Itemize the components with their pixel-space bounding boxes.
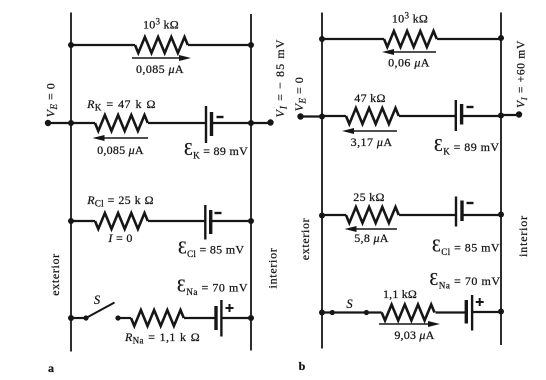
battery ENa = 70 mV (circuit a): short plate bbox=[214, 306, 217, 330]
figure label a bbox=[48, 361, 54, 375]
node junction a4 right bbox=[248, 315, 254, 321]
figure label b bbox=[299, 359, 306, 373]
current label 0,085 uA (circuit a branch 2) bbox=[97, 143, 144, 157]
membrane line exterior (circuit b, left vertical wire) bbox=[321, 13, 323, 349]
svg-text:S: S bbox=[346, 297, 353, 311]
wire battery EK to interior (circuit b) bbox=[462, 115, 501, 117]
value label 10^3 kOhm (circuit a) bbox=[143, 17, 179, 32]
node junction a3 right bbox=[248, 218, 254, 224]
current label 3,17 uA (circuit b branch 2) bbox=[351, 135, 393, 149]
svg-text:ƐNa = 70 mV: ƐNa = 70 mV bbox=[177, 276, 248, 298]
resistor 10^3 kOhm (circuit b leak branch) bbox=[384, 31, 437, 47]
membrane line interior (circuit a, right vertical wire) bbox=[250, 14, 252, 351]
switch S label (circuit a) bbox=[94, 293, 101, 307]
svg-text:exterior: exterior bbox=[298, 218, 312, 261]
current label 0,085 uA (circuit a branch 1) bbox=[136, 62, 184, 76]
membrane line exterior (circuit a, left vertical wire) bbox=[70, 13, 72, 352]
wire resistor RNa to battery (circuit a) bbox=[184, 317, 216, 319]
label interior (circuit a) bbox=[266, 248, 280, 289]
battery EK = 89 mV (circuit a): long plate bbox=[205, 106, 207, 143]
wire battery ENa to interior (circuit b) bbox=[472, 311, 501, 313]
svg-text:5,8 μA: 5,8 μA bbox=[354, 231, 389, 245]
switch S contact dot 2 (circuit b, closed) bbox=[364, 310, 369, 315]
svg-text:47 kΩ: 47 kΩ bbox=[354, 91, 385, 105]
wire branch 3 left (circuit a) bbox=[71, 220, 95, 222]
membrane line interior (circuit b, right vertical wire) bbox=[500, 13, 502, 346]
svg-text:ƐCl = 85 mV: ƐCl = 85 mV bbox=[432, 236, 500, 258]
battery EK polarity minus sign bbox=[217, 116, 224, 118]
svg-text:RCl = 25 k Ω: RCl = 25 k Ω bbox=[86, 193, 154, 209]
battery EK (circuit a): short plate bbox=[210, 112, 213, 136]
wire battery ECl to interior (circuit a) bbox=[211, 220, 251, 222]
svg-text:ƐK = 89 mV: ƐK = 89 mV bbox=[434, 135, 500, 157]
svg-text:0,085 μA: 0,085 μA bbox=[136, 62, 184, 76]
current arrow 0,06 uA leftward (circuit b branch 1) bbox=[382, 49, 436, 55]
wire branch 1 left (circuit b) bbox=[322, 38, 384, 40]
emf label EK = 89 mV bbox=[184, 139, 248, 161]
svg-text:I = 0: I = 0 bbox=[107, 231, 132, 245]
label VI = -85 mV (circuit a) bbox=[273, 38, 289, 117]
svg-text:exterior: exterior bbox=[48, 253, 62, 296]
label 47 kOhm (circuit b) bbox=[354, 91, 385, 105]
battery EK polarity minus sign (circuit b) bbox=[467, 106, 474, 108]
svg-text:a: a bbox=[48, 361, 54, 375]
node junction a1 right bbox=[248, 42, 254, 48]
battery ECl = 85 mV (circuit b): long plate bbox=[455, 197, 457, 227]
node junction a4 left bbox=[68, 315, 74, 321]
current label I = 0 (circuit a branch 3) bbox=[107, 231, 132, 245]
battery ENa polarity plus sign bbox=[226, 304, 234, 312]
wire membrane to switch pivot (circuit a) bbox=[71, 317, 86, 319]
label VE = 0 (circuit a) bbox=[44, 83, 60, 118]
label exterior (circuit b) bbox=[298, 218, 312, 261]
battery ECl (circuit a): short plate bbox=[209, 210, 212, 234]
wire resistor RCl to battery (circuit a) bbox=[148, 220, 205, 222]
svg-text:ƐK = 89 mV: ƐK = 89 mV bbox=[184, 139, 248, 161]
current arrow 5,8 uA leftward (circuit b branch 3) bbox=[345, 226, 398, 232]
resistor 47 kOhm (circuit b) bbox=[346, 108, 399, 124]
resistor 1,1 kOhm (circuit b) bbox=[382, 305, 435, 321]
wire branch 3 left (circuit b) bbox=[322, 214, 346, 216]
svg-text:1,1 kΩ: 1,1 kΩ bbox=[383, 287, 417, 301]
svg-text:S: S bbox=[94, 293, 101, 307]
node junction b4 left bbox=[319, 310, 325, 316]
node junction b1 left bbox=[319, 36, 325, 42]
current label 0,06 uA (circuit b branch 1) bbox=[388, 56, 430, 70]
wire battery EK to interior (circuit a) bbox=[212, 122, 252, 124]
emf label ECl = 85 mV (circuit b) bbox=[432, 236, 500, 258]
svg-text:b: b bbox=[299, 359, 306, 373]
svg-text:RK = 47 k Ω: RK = 47 k Ω bbox=[86, 97, 156, 113]
svg-text:ƐNa = 70 mV: ƐNa = 70 mV bbox=[430, 269, 501, 291]
label RCl = 25 kOhm bbox=[86, 193, 154, 209]
value label 10^3 kOhm (circuit b) bbox=[392, 11, 428, 26]
battery ECl = 85 mV (circuit a): long plate bbox=[204, 205, 206, 240]
svg-text:VI = +60 mV: VI = +60 mV bbox=[516, 40, 530, 108]
svg-text:VE = 0: VE = 0 bbox=[44, 83, 60, 118]
resistor RCl = 25 kOhm (circuit a) bbox=[95, 213, 148, 229]
svg-text:interior: interior bbox=[266, 248, 280, 289]
node junction b2 right bbox=[498, 113, 504, 119]
node junction b3 left bbox=[319, 213, 325, 219]
wire branch 2 left (circuit a) bbox=[71, 122, 95, 124]
battery EK (circuit b): short plate bbox=[460, 104, 463, 125]
label interior (circuit b) bbox=[516, 215, 530, 257]
node junction b4 right bbox=[498, 309, 504, 315]
svg-text:0,085 μA: 0,085 μA bbox=[97, 143, 144, 157]
wire battery ECl to interior (circuit b) bbox=[462, 214, 501, 216]
label VE = 0 (circuit b) bbox=[292, 77, 308, 112]
node junction a2 right bbox=[248, 120, 254, 126]
wire interior to terminal VI (circuit a) bbox=[251, 122, 271, 124]
terminal VE (circuit b, exterior) bbox=[297, 113, 303, 119]
current arrow 3,17 uA leftward (circuit b branch 2) bbox=[342, 128, 397, 134]
resistor 10^3 kOhm (circuit a leak branch) bbox=[135, 37, 188, 53]
resistor 25 kOhm (circuit b) bbox=[346, 207, 399, 223]
node junction b1 right bbox=[498, 35, 504, 41]
svg-text:103 kΩ: 103 kΩ bbox=[392, 11, 428, 26]
wire resistor 47k to battery (circuit b) bbox=[399, 115, 456, 117]
terminal VI (circuit a, interior) bbox=[267, 119, 273, 125]
svg-text:interior: interior bbox=[516, 215, 530, 257]
battery ENa (circuit a): long plate bbox=[220, 300, 222, 337]
switch S contact dot 1 (circuit b, closed) bbox=[330, 310, 335, 315]
wire branch 1 left (circuit a) bbox=[71, 44, 135, 46]
svg-text:ƐCl = 85 mV: ƐCl = 85 mV bbox=[178, 238, 244, 260]
switch S pivot dot (circuit a) bbox=[83, 315, 88, 320]
wire resistor RK to battery (circuit a) bbox=[148, 122, 206, 124]
battery ENa (circuit b): long plate bbox=[471, 295, 473, 331]
emf label ENa = 70 mV bbox=[177, 276, 248, 298]
switch S open contact dot (circuit a) bbox=[115, 315, 120, 320]
terminal VI (circuit b, interior) bbox=[516, 111, 522, 117]
label exterior (circuit a) bbox=[48, 253, 62, 296]
label VI = +60 mV (circuit b) bbox=[516, 40, 530, 108]
node junction a3 left bbox=[68, 218, 74, 224]
switch S lever open (circuit a) bbox=[86, 303, 115, 319]
resistor RK = 47 kOhm (circuit a) bbox=[95, 115, 148, 131]
wire branch 2 left (circuit b) bbox=[322, 115, 346, 117]
label 1,1 kOhm (circuit b) bbox=[383, 287, 417, 301]
wire branch 1 right (circuit b) bbox=[437, 38, 501, 40]
current arrow 9,03 uA rightward (circuit b branch 4) bbox=[379, 321, 440, 327]
label 25 kOhm (circuit b) bbox=[353, 190, 384, 204]
wire resistor 25k to battery (circuit b) bbox=[399, 214, 456, 216]
battery ECl polarity minus sign (circuit b) bbox=[467, 202, 474, 204]
wire terminal to membrane (circuit a branch 2) bbox=[48, 122, 71, 124]
svg-text:103 kΩ: 103 kΩ bbox=[143, 17, 179, 32]
battery ECl polarity minus sign bbox=[215, 212, 222, 214]
svg-text:0,06 μA: 0,06 μA bbox=[388, 56, 430, 70]
node junction b2 left bbox=[319, 114, 325, 120]
battery ENa polarity plus sign (circuit b) bbox=[476, 298, 484, 306]
resistor RNa = 1,1 kOhm (circuit a) bbox=[131, 310, 184, 326]
wire branch 1 right (circuit a) bbox=[188, 44, 251, 46]
svg-text:25 kΩ: 25 kΩ bbox=[353, 190, 384, 204]
svg-text:VI = − 85 mV: VI = − 85 mV bbox=[273, 38, 289, 117]
label RNa = 1,1 kOhm bbox=[124, 330, 200, 346]
wire battery ENa to interior (circuit a) bbox=[221, 317, 251, 319]
label RK = 47 kOhm bbox=[86, 97, 156, 113]
current label 9,03 uA (circuit b branch 4) bbox=[394, 328, 434, 342]
emf label ENa = 70 mV (circuit b) bbox=[430, 269, 501, 291]
wire branch 4 with closed switch (circuit b) bbox=[322, 311, 382, 313]
wire interior to terminal VI (circuit b) bbox=[501, 114, 519, 116]
battery EK = 89 mV (circuit b): long plate bbox=[455, 100, 457, 131]
current label 5,8 uA (circuit b branch 3) bbox=[354, 231, 389, 245]
svg-text:RNa = 1,1 k Ω: RNa = 1,1 k Ω bbox=[124, 330, 200, 346]
battery ECl (circuit b): short plate bbox=[460, 201, 463, 222]
wire contact to resistor RNa (circuit a) bbox=[118, 317, 131, 319]
node junction a1 left bbox=[68, 42, 74, 48]
node junction a2 left bbox=[68, 120, 74, 126]
terminal VE (circuit a, exterior) bbox=[45, 120, 51, 126]
battery ENa = 70 mV (circuit b): short plate bbox=[465, 300, 468, 324]
current arrow 0,085 uA leftward (circuit a branch 2) bbox=[93, 135, 149, 141]
svg-text:3,17 μA: 3,17 μA bbox=[351, 135, 393, 149]
svg-text:9,03 μA: 9,03 μA bbox=[394, 328, 434, 342]
switch S label (circuit b) bbox=[346, 297, 353, 311]
emf label ECl = 85 mV bbox=[178, 238, 244, 260]
wire terminal to membrane (circuit b branch 2) bbox=[301, 115, 323, 117]
node junction b3 right bbox=[498, 212, 504, 218]
svg-text:VE = 0: VE = 0 bbox=[292, 77, 308, 112]
current arrow 0,085 uA rightward (circuit a branch 1) bbox=[132, 55, 191, 61]
wire resistor 1,1k to battery (circuit b) bbox=[436, 311, 467, 313]
emf label EK = 89 mV (circuit b) bbox=[434, 135, 500, 157]
